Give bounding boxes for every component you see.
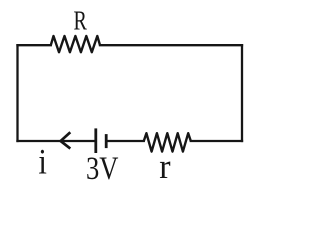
svg-text:i: i: [38, 142, 47, 182]
svg-text:r: r: [159, 147, 171, 186]
svg-text:R: R: [74, 5, 88, 36]
svg-text:3V: 3V: [86, 150, 119, 186]
